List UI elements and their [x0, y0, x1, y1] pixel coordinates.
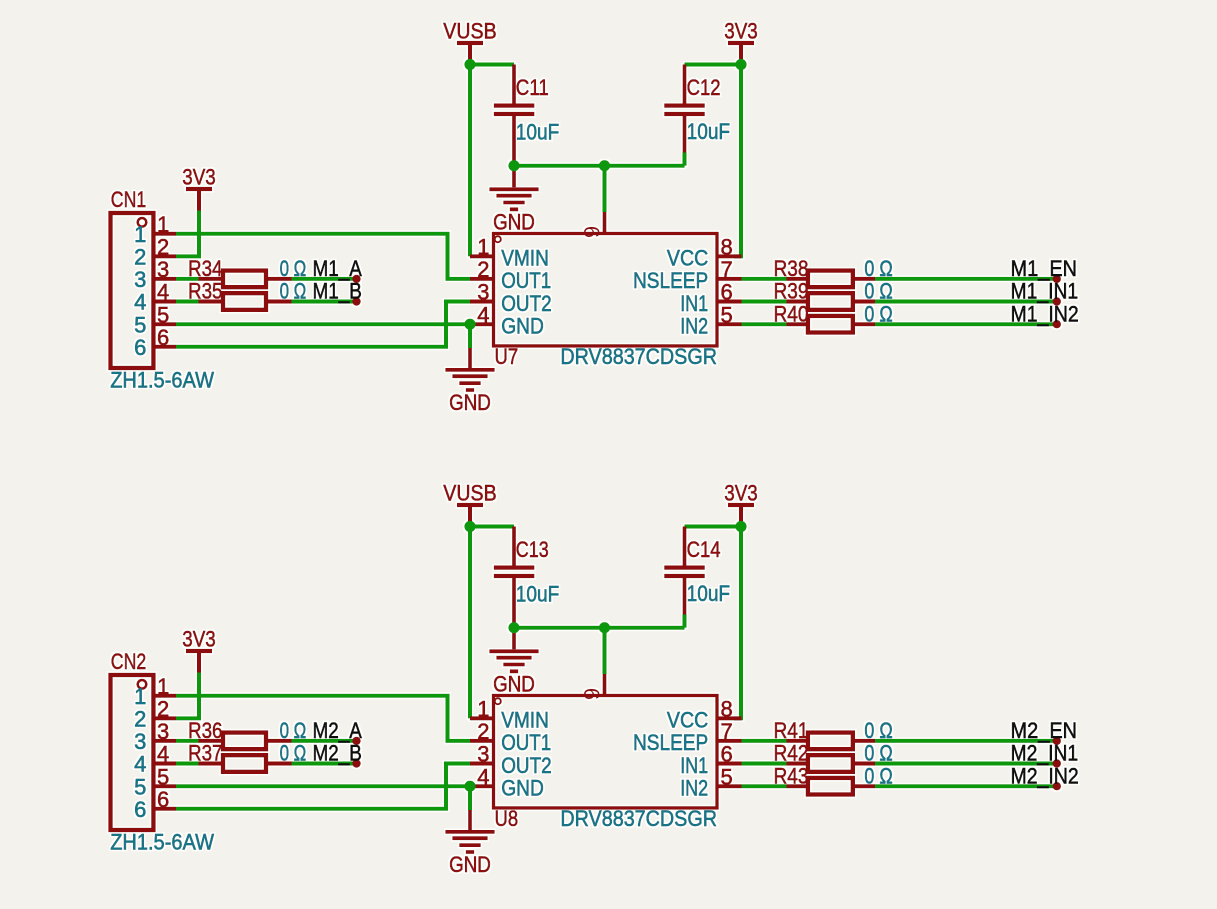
op-amp-style IC U7 body DRV8837: [494, 234, 718, 346]
capacitor C12 plates: [664, 106, 705, 114]
resistor R37 body: [223, 755, 266, 772]
svg-text:VCC: VCC: [667, 246, 708, 271]
svg-text:R36: R36: [188, 718, 223, 743]
IC U8 pin 7 stub: [717, 739, 742, 743]
wire VUSB stem to junction (M2): [468, 507, 472, 527]
connector CN2 channel number 3 (inside): [134, 729, 146, 754]
svg-text:4: 4: [134, 290, 146, 315]
IC U7 pin number 7: [721, 257, 733, 282]
resistor R40 value 0 ohm: [864, 301, 892, 326]
connector CN2 pin 6 stub: [153, 807, 176, 811]
wire 3V3 junction to C12 top (M1): [685, 63, 742, 67]
net label M2_EN: [1011, 718, 1078, 743]
IC U8 pin number 5: [721, 764, 733, 789]
svg-text:GND: GND: [449, 390, 491, 415]
IC U7 pin number 9 (rotated): [579, 226, 604, 238]
IC U7 pin number 3: [477, 280, 489, 305]
IC U7 port name GND: [501, 314, 544, 339]
wire CN1 pin3 to R34: [176, 277, 199, 281]
svg-text:R43: R43: [774, 763, 809, 788]
IC U7 pin 6 stub: [717, 300, 742, 304]
svg-text:M1_IN1: M1_IN1: [1011, 279, 1079, 304]
wire R38 to net M1_EN: [875, 277, 1056, 281]
svg-text:R40: R40: [774, 301, 809, 326]
capacitor C12 label: [687, 75, 721, 100]
wire VUSB junction to C11 top (M1): [470, 63, 514, 67]
connector CN2 body ZH1.5-6AW: [111, 675, 154, 830]
svg-text:U7: U7: [495, 344, 519, 369]
svg-text:4: 4: [134, 752, 146, 777]
ground symbol under C13: [489, 651, 538, 671]
net label M1_IN2: [1011, 301, 1079, 326]
IC U8 pin 2 stub: [470, 739, 494, 743]
connector CN1 label: [111, 187, 147, 212]
resistor R39 right lead: [855, 300, 876, 304]
net label 3V3 (M1 3V3 right): [724, 18, 758, 43]
wire 3V3 stem at CN1: [197, 191, 201, 211]
capacitor C14 value 10uF: [687, 581, 731, 606]
IC U8 pin 9 thermal pad stub: [603, 674, 607, 696]
svg-text:R34: R34: [188, 256, 223, 281]
net endpoint M2_B: [352, 759, 360, 767]
svg-text:4: 4: [157, 742, 169, 767]
ground symbol under C11: [489, 189, 538, 209]
svg-text:ZH1.5-6AW: ZH1.5-6AW: [110, 368, 214, 393]
IC U8 port name VMIN: [501, 708, 549, 733]
capacitor C12 value 10uF: [687, 119, 731, 144]
ground stem under C13: [512, 628, 516, 650]
connector CN2 pin 3 stub: [153, 739, 176, 743]
IC U8 port name OUT1: [501, 730, 551, 755]
wire CN1 pin4 to R35: [176, 300, 199, 304]
svg-text:M2_EN: M2_EN: [1011, 718, 1078, 743]
resistor R41 body: [808, 733, 853, 750]
net label M2_A: [313, 718, 363, 743]
svg-text:2: 2: [477, 257, 489, 282]
wire U8 pin6 to R42: [742, 762, 787, 766]
resistor R36 value 0 ohm: [280, 718, 307, 743]
IC U8 pin number 7: [721, 719, 733, 744]
svg-text:M1_IN2: M1_IN2: [1011, 301, 1079, 326]
ground label GND (under C13): [493, 672, 535, 697]
resistor R34 left lead: [199, 277, 222, 281]
net label M1_B: [313, 279, 362, 304]
wire CN2 pin5 to gnd node (M2): [176, 784, 470, 788]
capacitor C14 label: [687, 537, 721, 562]
svg-text:CN1: CN1: [111, 187, 147, 212]
svg-text:M1_B: M1_B: [313, 279, 362, 304]
svg-text:3V3: 3V3: [182, 626, 216, 651]
IC U7 pin number 2: [477, 257, 489, 282]
wire R39 to net M1_IN1: [875, 300, 1056, 304]
net endpoint M2_A: [352, 737, 360, 745]
svg-text:2: 2: [157, 235, 169, 260]
net label M1_A: [313, 256, 363, 281]
connector CN2 channel number 4 (inside): [134, 752, 146, 777]
svg-text:8: 8: [721, 235, 733, 260]
junction U7 GND node: [464, 319, 475, 330]
svg-text:DRV8837CDSGR: DRV8837CDSGR: [560, 806, 717, 831]
connector CN2 channel number 6 (inside): [134, 797, 146, 822]
svg-text:3V3: 3V3: [724, 480, 758, 505]
resistor R43 value 0 ohm: [864, 763, 892, 788]
svg-text:5: 5: [157, 302, 169, 327]
wire R41 to net M2_EN: [875, 739, 1056, 743]
wire C14 bottom to gnd bus (M2): [683, 615, 687, 628]
wire U7 pin7 to R38: [742, 277, 787, 281]
resistor R40 right lead: [855, 322, 876, 326]
connector CN2 pin 4 stub: [153, 762, 176, 766]
IC U8 pin 8 stub: [717, 716, 742, 720]
svg-text:3: 3: [134, 729, 146, 754]
resistor R35 body: [223, 293, 266, 310]
svg-text:2: 2: [157, 697, 169, 722]
svg-text:U8: U8: [495, 806, 519, 831]
resistor R40 body: [808, 316, 853, 333]
wire CN2 pin3 to R36: [176, 739, 199, 743]
wire U8 pin7 to R41: [742, 739, 787, 743]
svg-text:ZH1.5-6AW: ZH1.5-6AW: [110, 830, 214, 855]
IC U8 reference label: [495, 806, 519, 831]
connector CN1 channel number 4 (inside): [134, 290, 146, 315]
connector CN1 pin 1 stub: [153, 232, 176, 236]
wire CN2 pin1 to U8 OUT1 (M2): [176, 696, 470, 741]
wire 3V3 down to U7 pin 8 VCC (M1): [734, 65, 741, 257]
svg-text:R35: R35: [188, 279, 223, 304]
resistor R36 body: [223, 733, 266, 750]
wire CN1 pin6 to U7 OUT2 (M1): [176, 302, 470, 347]
IC U7 pin 9 thermal pad stub: [603, 212, 607, 234]
junction U8 GND node: [464, 781, 475, 792]
svg-text:GND: GND: [501, 776, 544, 801]
capacitor C11 value 10uF: [516, 120, 560, 145]
IC U7 port name IN2: [680, 314, 708, 339]
resistor R37 label: [188, 741, 223, 766]
svg-text:3V3: 3V3: [182, 164, 216, 189]
IC U7 port name OUT1: [501, 268, 551, 293]
connector CN2 pin number 4 (outside): [157, 742, 169, 767]
svg-text:VMIN: VMIN: [501, 708, 549, 733]
ground label GND (under U8): [449, 852, 491, 877]
IC U7 port name OUT2: [501, 291, 552, 316]
resistor R42 value 0 ohm: [864, 741, 892, 766]
wire CN2 pin6 to U8 OUT2 (M2): [176, 764, 470, 809]
resistor R34 right lead: [268, 277, 292, 281]
IC U8 pin number 3: [477, 742, 489, 767]
connector CN2 value ZH1.5-6AW: [110, 830, 214, 855]
net endpoint M2_IN1: [1053, 759, 1061, 767]
capacitor C13 label: [516, 537, 549, 562]
svg-text:R38: R38: [774, 256, 809, 281]
capacitor C13 value 10uF: [516, 582, 560, 607]
svg-text:C13: C13: [516, 537, 549, 562]
IC U7 pin 8 stub: [717, 254, 742, 258]
svg-text:6: 6: [157, 325, 169, 350]
resistor R34 label: [188, 256, 223, 281]
junction gnd bus (M2): [599, 622, 610, 633]
connector CN1 pin number 6 (outside): [157, 325, 169, 350]
connector CN1 value ZH1.5-6AW: [110, 368, 214, 393]
resistor R37 right lead: [268, 762, 292, 766]
IC U8 port name IN1: [680, 753, 708, 778]
svg-text:7: 7: [721, 719, 733, 744]
wire 3V3 junction to C14 top (M2): [685, 525, 742, 529]
connector CN1 pin 2 stub: [153, 254, 176, 258]
svg-text:5: 5: [134, 774, 146, 799]
connector CN1 pin number 2 (outside): [157, 235, 169, 260]
capacitor C13 plates: [494, 568, 535, 576]
ground label GND (under C11): [493, 210, 535, 235]
capacitor C11 plates: [494, 106, 535, 114]
IC U8 pin 1 stub: [470, 716, 494, 720]
wire VUSB stem to junction (M1): [468, 45, 472, 65]
svg-text:OUT2: OUT2: [501, 291, 552, 316]
resistor R36 label: [188, 718, 223, 743]
net endpoint M1_EN: [1053, 275, 1061, 283]
wire gnd bus right segment (M2): [605, 626, 685, 630]
connector CN2 pin 2 stub: [153, 716, 176, 720]
IC U7 port name IN1: [680, 291, 708, 316]
IC U7 value DRV8837CDSGR: [560, 344, 717, 369]
resistor R36 left lead: [199, 739, 222, 743]
ground stem under U7: [468, 348, 472, 368]
resistor R41 value 0 ohm: [864, 718, 892, 743]
IC U8 pin 4 stub: [470, 784, 494, 788]
svg-text:10uF: 10uF: [687, 119, 731, 144]
svg-text:3: 3: [134, 267, 146, 292]
resistor R38 left lead: [787, 277, 807, 281]
svg-text:3: 3: [477, 742, 489, 767]
wire 3V3 to CN2 pin 2 (M2): [176, 673, 199, 719]
resistor R39 left lead: [787, 300, 807, 304]
resistor R43 body: [808, 778, 853, 795]
resistor R37 value 0 ohm: [280, 741, 307, 766]
svg-text:C12: C12: [687, 75, 721, 100]
connector CN1 channel number 5 (inside): [134, 312, 146, 337]
connector CN1 body ZH1.5-6AW: [111, 213, 154, 368]
connector CN1 pin 6 stub: [153, 345, 176, 349]
connector CN2 channel number 5 (inside): [134, 774, 146, 799]
connector CN2 pin 5 stub: [153, 784, 176, 788]
wire U7 pin6 to R39: [742, 300, 787, 304]
svg-text:3: 3: [477, 280, 489, 305]
wire R37 to net M2_B: [292, 762, 356, 766]
ground stem under U8: [468, 810, 472, 830]
svg-text:10uF: 10uF: [516, 582, 560, 607]
IC U8 pin number 1: [477, 697, 489, 722]
resistor R43 right lead: [855, 784, 876, 788]
svg-text:VUSB: VUSB: [443, 480, 496, 505]
wire 3V3 to CN1 pin 2 (M1): [176, 211, 199, 257]
svg-text:IN1: IN1: [680, 753, 708, 778]
svg-text:IN2: IN2: [680, 776, 708, 801]
svg-text:7: 7: [721, 257, 733, 282]
ground stem under C11: [512, 166, 516, 188]
capacitor C11 label: [516, 75, 549, 100]
connector CN1 pin 3 stub: [153, 277, 176, 281]
IC U7 pin number 4: [477, 302, 489, 327]
IC U7 port name NSLEEP: [633, 268, 708, 293]
resistor R38 value 0 ohm: [864, 256, 892, 281]
IC U7 pin number 1: [477, 235, 489, 260]
IC U8 value DRV8837CDSGR: [560, 806, 717, 831]
op-amp-style IC U8 body DRV8837: [494, 696, 718, 808]
wire 3V3 stem to junction (M1): [739, 45, 743, 65]
svg-text:OUT1: OUT1: [501, 268, 551, 293]
IC U8 pin number 6: [721, 742, 733, 767]
svg-text:GND: GND: [493, 210, 535, 235]
connector CN1 pin 5 stub: [153, 322, 176, 326]
net label VUSB (M2 VUSB): [443, 480, 496, 505]
IC U7 port name VMIN: [501, 246, 549, 271]
wire CN1 pin5 to gnd node (M1): [176, 322, 470, 326]
resistor R41 left lead: [787, 739, 807, 743]
net endpoint M2_IN2: [1053, 782, 1061, 790]
connector CN1 pin number 1 (outside): [157, 212, 169, 237]
junction 3V3 node (M2): [735, 521, 746, 532]
svg-text:M1_EN: M1_EN: [1011, 256, 1078, 281]
resistor R38 label: [774, 256, 809, 281]
svg-text:M2_IN2: M2_IN2: [1011, 763, 1079, 788]
svg-text:M2_B: M2_B: [313, 741, 362, 766]
connector CN1 pin number 4 (outside): [157, 280, 169, 305]
wire R40 to net M1_IN2: [875, 322, 1056, 326]
resistor R38 body: [808, 271, 853, 288]
capacitor C13 top lead: [512, 527, 516, 566]
IC U8 pin number 4: [477, 764, 489, 789]
ground symbol under U8: [445, 832, 494, 852]
svg-text:VUSB: VUSB: [443, 18, 496, 43]
connector CN2 label: [111, 649, 147, 674]
svg-text:C14: C14: [687, 537, 721, 562]
svg-text:M2_IN1: M2_IN1: [1011, 741, 1079, 766]
svg-text:DRV8837CDSGR: DRV8837CDSGR: [560, 344, 717, 369]
IC U8 pin number 8: [721, 697, 733, 722]
connector CN1 pin number 5 (outside): [157, 302, 169, 327]
capacitor C14 plates: [664, 568, 705, 576]
IC U8 port name GND: [501, 776, 544, 801]
IC U7 reference label: [495, 344, 519, 369]
connector CN1 channel number 6 (inside): [134, 335, 146, 360]
svg-text:6: 6: [721, 742, 733, 767]
resistor R36 right lead: [268, 739, 292, 743]
IC U8 pin number 9 (rotated): [579, 688, 604, 700]
svg-text:OUT1: OUT1: [501, 730, 551, 755]
wire U7 pin5 to R40: [742, 322, 787, 326]
resistor R35 value 0 ohm: [280, 279, 307, 304]
IC U7 pin number 5: [721, 302, 733, 327]
connector CN1 channel number 2 (inside): [134, 245, 146, 270]
IC U8 port name OUT2: [501, 753, 552, 778]
resistor R42 body: [808, 755, 853, 772]
net label 3V3 (M1 3V3 at CN1): [182, 164, 216, 189]
svg-text:C11: C11: [516, 75, 549, 100]
connector CN2 pin number 6 (outside): [157, 787, 169, 812]
net endpoint M1_IN2: [1053, 320, 1061, 328]
connector CN1 pin number 3 (outside): [157, 257, 169, 282]
svg-text:3: 3: [157, 257, 169, 282]
svg-text:5: 5: [721, 764, 733, 789]
net endpoint M1_B: [352, 297, 360, 305]
svg-text:10uF: 10uF: [516, 120, 560, 145]
IC U7 port name VCC: [667, 246, 708, 271]
resistor R35 left lead: [199, 300, 222, 304]
svg-text:4: 4: [477, 764, 489, 789]
svg-text:VMIN: VMIN: [501, 246, 549, 271]
net label M2_IN2: [1011, 763, 1079, 788]
wire R36 to net M2_A: [292, 739, 356, 743]
svg-text:4: 4: [157, 280, 169, 305]
svg-text:10uF: 10uF: [687, 581, 731, 606]
svg-text:1: 1: [477, 235, 489, 260]
wire R43 to net M2_IN2: [875, 784, 1056, 788]
connector CN2 pin number 5 (outside): [157, 764, 169, 789]
connector CN2 pin number 3 (outside): [157, 719, 169, 744]
power 3V3 symbol (M2 3V3 at CN2): [186, 651, 212, 653]
connector CN2 channel number 2 (inside): [134, 707, 146, 732]
resistor R41 label: [774, 718, 809, 743]
svg-text:5: 5: [721, 302, 733, 327]
svg-text:5: 5: [134, 312, 146, 337]
resistor R42 label: [774, 741, 809, 766]
wire CN2 pin4 to R37: [176, 762, 199, 766]
net endpoint M1_A: [352, 275, 360, 283]
IC U8 port name VCC: [667, 708, 708, 733]
svg-text:2: 2: [477, 719, 489, 744]
svg-text:3V3: 3V3: [724, 18, 758, 43]
svg-text:OUT2: OUT2: [501, 753, 552, 778]
capacitor C12 top lead: [683, 65, 687, 104]
wire U8 pin4 gnd down (M2): [468, 786, 472, 810]
net label M2_B: [313, 741, 362, 766]
IC U7 pin 3 stub: [470, 300, 494, 304]
connector CN1 channel number 1 (inside): [134, 222, 146, 247]
junction 3V3 node (M1): [735, 59, 746, 70]
wire VUSB down to U8 pin 1 VMIN (M2): [468, 527, 472, 719]
capacitor C13 bottom lead: [512, 578, 516, 628]
svg-text:5: 5: [157, 764, 169, 789]
svg-text:2: 2: [134, 707, 146, 732]
net label M2_IN1: [1011, 741, 1079, 766]
svg-text:6: 6: [721, 280, 733, 305]
IC U7 pin number 8: [721, 235, 733, 260]
resistor R38 right lead: [855, 277, 876, 281]
svg-text:9: 9: [579, 688, 604, 700]
ground label GND (under U7): [449, 390, 491, 415]
resistor R42 left lead: [787, 762, 807, 766]
wire VUSB junction to C13 top (M2): [470, 525, 514, 529]
net label M1_IN1: [1011, 279, 1079, 304]
wire R34 to net M1_A: [292, 277, 356, 281]
wire gnd bus left segment (M2): [514, 626, 605, 630]
net label 3V3 (M2 3V3 right): [724, 480, 758, 505]
svg-text:3: 3: [157, 719, 169, 744]
resistor R39 value 0 ohm: [864, 279, 892, 304]
svg-text:R41: R41: [774, 718, 809, 743]
resistor R41 right lead: [855, 739, 876, 743]
svg-text:4: 4: [477, 302, 489, 327]
resistor R34 body: [223, 271, 266, 288]
svg-text:1: 1: [134, 684, 146, 709]
svg-text:NSLEEP: NSLEEP: [633, 268, 708, 293]
wire gnd bus down to U8 pin 9 (M2): [603, 628, 607, 674]
IC U7 pin 4 stub: [470, 322, 494, 326]
wire U8 pin5 to R43: [742, 784, 787, 788]
wire 3V3 down to U8 pin 8 VCC (M2): [734, 527, 741, 719]
svg-text:1: 1: [157, 212, 169, 237]
power 3V3 symbol (M2 3V3 right): [728, 505, 754, 507]
capacitor C11 top lead: [512, 65, 516, 104]
